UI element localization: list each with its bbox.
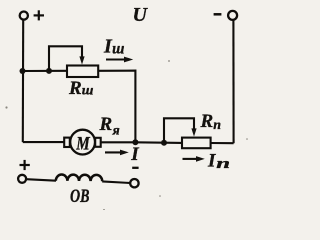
label + (bottom-left polarity) xyxy=(20,160,30,170)
wire bottom of left rail to motor xyxy=(23,141,64,143)
label + (top-left polarity) xyxy=(34,10,44,20)
wire terminal to OB coil xyxy=(26,179,56,181)
arrow I xyxy=(105,151,123,153)
wire Rp slider tap loop xyxy=(164,118,194,142)
wire right rail xyxy=(232,20,234,143)
motor M armature circle xyxy=(70,130,95,155)
svg-text:М: М xyxy=(76,134,91,155)
svg-text:Rш: Rш xyxy=(68,78,94,99)
wire Rsh slider tap loop xyxy=(49,46,82,71)
arrow Ish xyxy=(106,58,127,60)
node junction I xyxy=(132,139,138,145)
terminal − (top-right) xyxy=(228,11,237,20)
svg-text:U: U xyxy=(133,4,149,26)
terminal + (top-left) xyxy=(20,12,28,20)
wire from Rsh to armature junction xyxy=(98,71,135,143)
motor M brush left xyxy=(64,138,70,147)
terminal − (excitation supply) xyxy=(130,179,138,187)
svg-text:Iп: Iп xyxy=(207,151,230,173)
label − (top-right polarity) xyxy=(214,13,222,16)
resistor Rp box xyxy=(182,138,211,149)
resistor Rsh box xyxy=(67,66,98,78)
wire left rail (from + terminal down) xyxy=(22,20,25,142)
svg-text:Iш: Iш xyxy=(103,36,124,58)
wire shunt branch to Rsh xyxy=(23,70,68,72)
wire OB coil to − terminal xyxy=(102,181,130,183)
inductor OB (excitation winding) xyxy=(56,175,102,182)
svg-text:Rя: Rя xyxy=(99,114,120,139)
label − (bottom-right polarity) xyxy=(132,167,138,169)
svg-text:Rп: Rп xyxy=(200,111,222,133)
motor M brush right xyxy=(95,138,101,147)
wire tap to Rp box xyxy=(164,142,182,144)
svg-text:I: I xyxy=(130,144,139,165)
node junction on left rail xyxy=(20,68,26,74)
terminal + (excitation supply) xyxy=(18,175,26,183)
wire Rp to right rail xyxy=(211,142,234,144)
wire motor to junction I xyxy=(101,141,136,143)
node tap junction Rp xyxy=(161,140,167,146)
node tap junction xyxy=(46,68,52,74)
wire junction I to Rp tap xyxy=(135,141,164,143)
arrow Ip xyxy=(183,158,199,160)
paper speckles xyxy=(5,60,247,211)
svg-text:ОВ: ОВ xyxy=(70,186,90,207)
